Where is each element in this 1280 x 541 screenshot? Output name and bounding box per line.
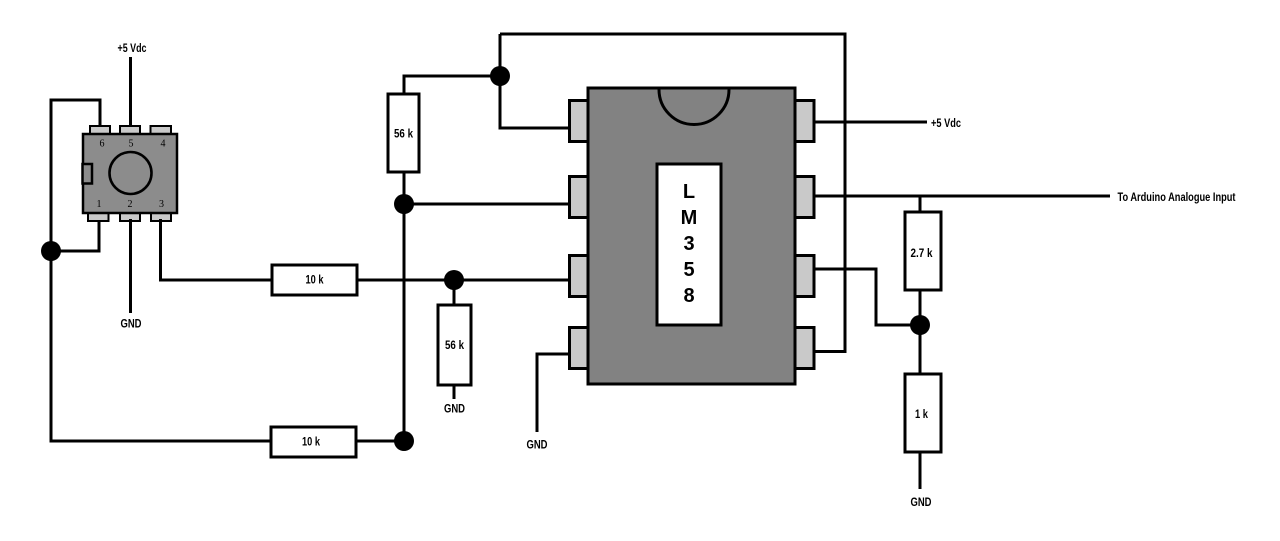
resistor R5 2.7 k — [905, 212, 941, 290]
junction: left rail / sensor pin 1 — [41, 241, 61, 261]
svg-text:2: 2 — [128, 199, 133, 210]
wire: R3/R2 node to op-amp pin 2 — [404, 203, 571, 206]
op-amp U1 body — [588, 88, 795, 384]
sensor pin 6 lead — [90, 126, 110, 135]
wire: op-amp pin 8 to +5 Vdc — [814, 121, 927, 124]
svg-text:10 k: 10 k — [306, 273, 324, 287]
svg-text:6: 6 — [100, 139, 105, 150]
junction: R1 output / R4 — [444, 270, 464, 290]
svg-text:GND: GND — [911, 495, 932, 509]
junction: feedback node — [490, 66, 510, 86]
wire: R4 to GND — [453, 385, 456, 399]
op-amp pin 4 lead — [570, 328, 589, 369]
wire: junction to R4 — [453, 280, 456, 306]
svg-text:5: 5 — [129, 139, 134, 150]
sensor pin 5 lead — [120, 126, 140, 135]
svg-text:3: 3 — [683, 233, 694, 255]
resistor R3 56 k — [388, 94, 419, 172]
wire: R1 to op-amp pin 3 — [357, 279, 570, 282]
label LM358 — [681, 181, 698, 307]
wire: left rail to R2 — [51, 440, 271, 443]
wire: feedback top rail to op-amp pin 5 — [500, 34, 845, 352]
junction: R3 / op-amp pin 2 node — [394, 194, 414, 214]
svg-text:5: 5 — [683, 259, 694, 281]
sensor pin 2 lead — [120, 212, 140, 221]
wire: +5 Vdc to sensor pin 5 — [129, 57, 132, 127]
wire: R2 to R3 junction — [356, 440, 404, 443]
sensor pin 3 lead — [151, 212, 171, 221]
svg-text:+5 Vdc: +5 Vdc — [931, 116, 961, 130]
op-amp pin 2 lead — [570, 177, 589, 218]
svg-text:GND: GND — [527, 438, 548, 452]
wire: output to R5 — [919, 196, 922, 213]
wire: op-amp pin 7 output — [814, 195, 1110, 198]
wire: sensor pin 1 to left rail junction — [51, 219, 99, 251]
svg-text:2.7 k: 2.7 k — [911, 246, 933, 260]
svg-text:GND: GND — [121, 317, 142, 331]
op-amp pin 6 lead — [795, 256, 815, 297]
sensor pin 1 lead — [88, 212, 109, 221]
sensor index tab — [83, 164, 93, 184]
svg-text:To Arduino Analogue Input: To Arduino Analogue Input — [1118, 190, 1236, 204]
wire: sensor pin 6 loop to left rail — [51, 100, 100, 128]
sensor pin 4 lead — [151, 126, 172, 135]
wire: R3 bottom rail — [403, 172, 406, 441]
wire: R5 to divider junction — [919, 290, 922, 325]
gas sensor U2 body — [83, 134, 177, 213]
op-amp pin 1 lead — [570, 101, 589, 142]
wire: op-amp pin 4 to GND — [537, 354, 571, 432]
svg-text:GND: GND — [444, 402, 465, 416]
svg-text:L: L — [683, 181, 695, 203]
op-amp pin 5 lead — [795, 328, 815, 369]
wire: R6 to GND — [919, 452, 922, 489]
wire: sensor pin 2 to GND — [129, 219, 132, 313]
resistor R2 10 k — [271, 427, 356, 457]
wire: feedback node vertical — [499, 34, 502, 130]
junction: R2 / R3 — [394, 431, 414, 451]
svg-text:M: M — [681, 207, 698, 229]
op-amp pin 7 lead — [795, 177, 815, 218]
op-amp label plate — [657, 164, 721, 325]
sensor top face circle — [110, 152, 152, 194]
wire: junction to R6 — [919, 325, 922, 374]
resistor R4 56 k — [438, 305, 471, 385]
op-amp notch — [659, 90, 729, 125]
svg-text:3: 3 — [159, 199, 164, 210]
svg-text:56 k: 56 k — [394, 127, 413, 141]
junction: R5 / R6 divider — [910, 315, 930, 335]
wire: sensor pin 3 to R1 — [161, 219, 273, 280]
svg-text:4: 4 — [161, 139, 166, 150]
svg-text:56 k: 56 k — [445, 338, 464, 352]
svg-text:1 k: 1 k — [915, 407, 928, 421]
op-amp pin 8 lead — [795, 101, 815, 142]
wire: R3 top lead to feedback node — [404, 76, 500, 95]
svg-text:10 k: 10 k — [302, 435, 320, 449]
wire: feedback node to op-amp pin 1 — [500, 127, 571, 130]
wire: left rail vertical — [50, 99, 53, 443]
resistor R1 10 k — [272, 265, 357, 295]
svg-text:+5 Vdc: +5 Vdc — [118, 41, 147, 55]
wire: divider junction to op-amp pin 6 — [814, 269, 920, 325]
resistor R6 1 k — [905, 374, 941, 452]
svg-text:1: 1 — [97, 199, 102, 210]
op-amp pin 3 lead — [570, 256, 589, 297]
svg-text:8: 8 — [683, 285, 694, 307]
